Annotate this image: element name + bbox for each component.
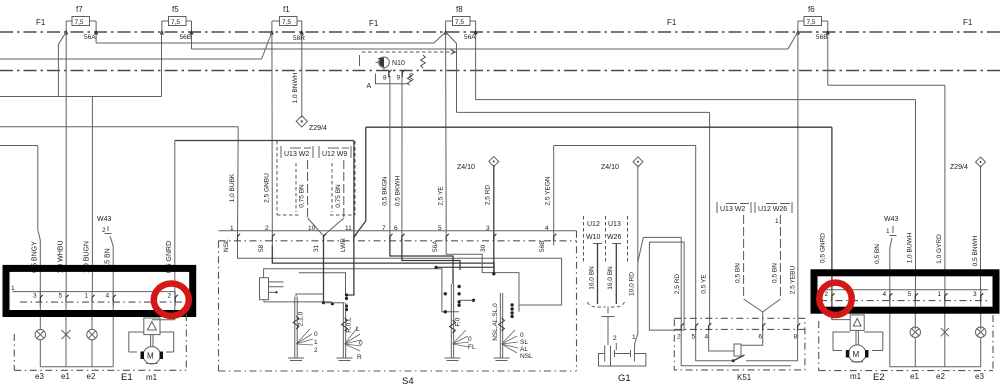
svg-text:8: 8 — [794, 334, 798, 341]
svg-text:58R: 58R — [293, 35, 305, 42]
wire f7 diagonal branch — [0, 32, 162, 97]
svg-text:R,0,L: R,0,L — [346, 317, 353, 333]
N10 pin 9 — [397, 70, 414, 82]
svg-text:0,5 BN: 0,5 BN — [772, 263, 779, 283]
left highlight block wires through — [40, 292, 175, 367]
battery G1 — [599, 334, 646, 384]
svg-text:FL: FL — [468, 344, 476, 351]
svg-text:1: 1 — [938, 291, 942, 298]
S4 pin 4 56B — [539, 225, 556, 252]
wire f8 tick diagonal branch to K51 0,5 YE — [446, 32, 710, 325]
box at G1 right — [649, 242, 684, 330]
K51 pin 8 — [794, 323, 801, 340]
coupler U13 W2 at K51 — [717, 202, 751, 299]
svg-text:2,5 YE: 2,5 YE — [438, 186, 445, 206]
right block pin 2 — [825, 290, 835, 305]
svg-text:Z4/10: Z4/10 — [601, 164, 619, 171]
ground bracket — [587, 302, 605, 307]
svg-text:F1: F1 — [667, 18, 677, 27]
svg-text:1: 1 — [230, 225, 234, 232]
svg-text:56B: 56B — [816, 34, 828, 41]
svg-text:SL: SL — [520, 339, 528, 346]
svg-text:U13: U13 — [608, 221, 621, 228]
svg-text:3: 3 — [973, 291, 977, 298]
svg-text:1,0 BUBK: 1,0 BUBK — [229, 173, 236, 202]
switch wiper 2 (R,0,L) — [337, 303, 364, 361]
svg-text:2,5 RD: 2,5 RD — [485, 185, 492, 206]
svg-text:7,5: 7,5 — [75, 19, 84, 26]
wire pin3 down dark — [493, 246, 495, 274]
wire left edge y145.5 to e3 column — [0, 146, 40, 292]
svg-text:7,5: 7,5 — [807, 19, 816, 26]
wire f5 feed to e2 column — [92, 32, 161, 292]
svg-text:f1: f1 — [283, 5, 290, 14]
dash-dot frame E2 — [819, 315, 993, 371]
svg-text:56B: 56B — [539, 240, 546, 252]
wire pin11 down — [347, 246, 354, 296]
wire 0,5 BNWH Z29/4 to right block pin3 — [980, 166, 982, 290]
svg-text:U13 W2: U13 W2 — [284, 151, 309, 158]
svg-text:4: 4 — [545, 225, 549, 232]
connector block inside S4 — [260, 278, 269, 300]
svg-text:0,5 YE: 0,5 YE — [701, 274, 708, 294]
wire rail y59 to f1 tick — [0, 58, 262, 60]
svg-text:30: 30 — [480, 244, 487, 252]
svg-text:0,75 BN: 0,75 BN — [335, 184, 342, 208]
S4 pin 7 — [382, 225, 393, 246]
wire lamp return rail right — [890, 366, 981, 368]
svg-text:2,5 GNBU: 2,5 GNBU — [264, 173, 271, 203]
lamp e2 — [87, 329, 98, 381]
switch wiper 1 (2,1,0) — [288, 297, 318, 361]
svg-text:e2: e2 — [87, 372, 96, 381]
svg-text:8: 8 — [383, 75, 387, 82]
svg-text:4: 4 — [883, 291, 887, 298]
wire N10 pin8 to S4 pin7 BKGN — [389, 76, 391, 236]
svg-text:2: 2 — [314, 347, 318, 354]
svg-text:0: 0 — [468, 336, 472, 343]
svg-text:7,5: 7,5 — [282, 19, 291, 26]
S4 pin 10 31 — [308, 225, 326, 252]
svg-text:R: R — [357, 354, 362, 361]
wire rail y43 f7 to f8 — [96, 42, 434, 44]
node A bracket — [367, 74, 412, 91]
svg-text:L: L — [356, 326, 360, 333]
wire rail from block top — [264, 269, 460, 312]
svg-text:2,5 YEBU: 2,5 YEBU — [790, 265, 797, 294]
K51 internals: coil and contact — [681, 334, 797, 366]
dashed frame around U13W2 U12W9 — [277, 141, 355, 215]
svg-text:e1: e1 — [910, 372, 919, 381]
right block pin 1 — [938, 290, 948, 305]
svg-text:F,0: F,0 — [455, 317, 462, 326]
control unit N10 — [360, 50, 456, 71]
svg-text:10: 10 — [308, 225, 316, 232]
S4 internal wiring — [238, 246, 562, 319]
svg-text:2: 2 — [677, 334, 681, 341]
svg-text:f6: f6 — [808, 5, 815, 14]
svg-text:e3: e3 — [975, 372, 984, 381]
connector Z29/4 right — [950, 157, 985, 171]
ground W43 right — [884, 216, 899, 290]
K51 pin 4 — [705, 323, 712, 340]
svg-text:m1: m1 — [850, 372, 862, 381]
svg-text:9: 9 — [397, 75, 401, 82]
wire rail y140.5 GNRD to S4 pin11 — [175, 141, 354, 292]
svg-text:AL: AL — [520, 346, 528, 353]
svg-text:16,0 BN: 16,0 BN — [607, 266, 614, 290]
svg-text:2,1,0: 2,1,0 — [298, 311, 305, 326]
coupler U12 W9 — [319, 146, 351, 218]
coupler U12 U13 W10 W26 ground assembly — [584, 216, 628, 345]
left block pin 4 — [106, 292, 116, 306]
svg-text:m1: m1 — [146, 373, 158, 382]
svg-text:0: 0 — [359, 340, 363, 347]
left block pin 2 — [168, 292, 178, 306]
ground W43 left — [97, 216, 113, 292]
lamp e1 right — [910, 327, 921, 381]
svg-text:NSL,AL,SL,0: NSL,AL,SL,0 — [492, 303, 499, 341]
wire N10 pin9 to S4 pin6 BKWH — [401, 76, 403, 236]
svg-text:16,0 BN: 16,0 BN — [589, 266, 596, 290]
svg-text:5: 5 — [438, 225, 442, 232]
lamp e3 — [35, 329, 46, 381]
svg-text:F1: F1 — [963, 18, 973, 27]
bus 2 — [0, 70, 1000, 72]
relay K51 box — [674, 318, 805, 382]
svg-text:0: 0 — [314, 331, 318, 338]
K51 pin 5 — [692, 323, 699, 340]
wire f1 feed down to S4 pin2 — [271, 32, 273, 236]
left block pin 3 — [33, 292, 43, 306]
switch unit S4 box — [219, 231, 577, 387]
wire rail from pin1 — [238, 246, 562, 306]
svg-text:2: 2 — [613, 335, 617, 342]
svg-text:A: A — [367, 83, 372, 90]
svg-text:F1: F1 — [369, 19, 379, 28]
svg-text:U12 W26: U12 W26 — [758, 206, 787, 213]
svg-text:10,0 RD: 10,0 RD — [629, 272, 636, 296]
svg-text:f8: f8 — [456, 5, 463, 14]
svg-text:5: 5 — [59, 293, 63, 300]
right block jumper bar — [820, 290, 988, 301]
svg-text:W26: W26 — [607, 234, 622, 241]
fuse f8 — [444, 5, 478, 100]
fuse f6 — [796, 5, 830, 85]
svg-text:6: 6 — [394, 225, 398, 232]
svg-text:2: 2 — [168, 293, 172, 300]
connector Z4/10 right — [601, 157, 643, 171]
svg-text:0: 0 — [520, 332, 524, 339]
wire f6 left feed down to K51 pin 8 — [797, 32, 799, 325]
svg-text:6: 6 — [759, 334, 763, 341]
svg-text:e1: e1 — [61, 372, 70, 381]
right highlight block wires through — [832, 290, 981, 367]
wire 2,5 RD branch to K51 pin2 — [638, 237, 681, 325]
switch wiper 3 (F,0) — [445, 284, 476, 361]
svg-text:G1: G1 — [618, 373, 631, 384]
wire rail from pin2 — [272, 246, 494, 274]
S4 pin 2 58 — [258, 225, 275, 252]
K51 pin 6 — [759, 323, 766, 340]
wire lamp return rail left — [40, 366, 112, 368]
wire pin7 pin6 down — [390, 246, 453, 285]
svg-text:0,5 BNWH: 0,5 BNWH — [972, 235, 979, 266]
wire diagonal to f8 tick — [434, 32, 446, 43]
wire f7 feed down to e1 column — [65, 32, 67, 292]
wire rail y127.2 pin11 to right block pin2 — [354, 127, 832, 290]
svg-text:N10: N10 — [392, 60, 405, 67]
svg-text:0,5 GNRD: 0,5 GNRD — [820, 233, 827, 263]
wire f8 right lead to right block pin5 BUWH — [476, 100, 916, 290]
svg-text:e2: e2 — [936, 372, 945, 381]
coupler U12 W26 at K51 — [755, 202, 792, 299]
motor m1 left — [121, 318, 175, 383]
wire 10,0 RD Z4/10 to battery G1 — [635, 165, 638, 343]
svg-text:2,5 RD: 2,5 RD — [674, 274, 681, 295]
svg-text:1: 1 — [11, 285, 15, 292]
svg-text:E2: E2 — [873, 372, 885, 383]
svg-text:5: 5 — [692, 334, 696, 341]
svg-text:NSL: NSL — [520, 353, 533, 360]
lamp e1 cross — [61, 330, 71, 381]
fuse f7 — [64, 5, 98, 43]
right block pin 4 — [883, 290, 893, 305]
svg-text:0,5 BKGN: 0,5 BKGN — [382, 176, 389, 206]
right block pin 3 — [973, 290, 983, 305]
svg-text:M: M — [853, 350, 860, 359]
black highlight rectangle left — [6, 268, 193, 313]
left block pin 1 — [85, 292, 95, 306]
coupler U13 W2 left — [281, 146, 313, 218]
svg-text:7,5: 7,5 — [455, 19, 464, 26]
svg-text:3: 3 — [486, 225, 490, 232]
lamp e3 right — [975, 327, 986, 381]
svg-text:56A: 56A — [464, 34, 476, 41]
svg-text:LWR: LWR — [340, 238, 347, 252]
switch wiper 4 (NSL,AL,SL,0) — [492, 293, 533, 361]
wire rail y126.7 left edge to S4 pin1 — [0, 127, 238, 236]
svg-text:M: M — [147, 352, 154, 361]
FL switch contact dots — [457, 285, 460, 288]
wire V merge to K51 pin6 — [744, 299, 781, 325]
svg-text:1,0 BNWH: 1,0 BNWH — [292, 72, 299, 103]
wire diagonal to f6 tick — [788, 32, 798, 49]
svg-text:2,5 YEGN: 2,5 YEGN — [545, 176, 552, 205]
black highlight rectangle right — [814, 273, 996, 310]
svg-text:K51: K51 — [737, 373, 752, 382]
svg-text:Z4/10: Z4/10 — [457, 164, 475, 171]
svg-text:W43: W43 — [884, 216, 899, 223]
svg-text:11: 11 — [345, 225, 352, 232]
svg-text:2: 2 — [102, 227, 106, 234]
svg-text:f7: f7 — [76, 5, 83, 14]
svg-text:e3: e3 — [35, 372, 44, 381]
wire S4 pin4 YEGN to K51 pin5 — [554, 146, 696, 326]
svg-text:Z29/4: Z29/4 — [309, 125, 327, 132]
wire rail y273 — [299, 273, 346, 294]
svg-text:56A: 56A — [432, 240, 439, 252]
connector Z29/4 left — [292, 72, 327, 132]
svg-text:56A: 56A — [84, 34, 96, 41]
wire f8 tick to S4 pin5 — [445, 32, 448, 236]
svg-text:0,5 BN: 0,5 BN — [735, 263, 742, 283]
lamp e2 right cross — [936, 328, 949, 381]
motor m1 right — [832, 315, 885, 383]
svg-text:0,75 BN: 0,75 BN — [299, 184, 306, 208]
svg-text:2: 2 — [825, 291, 829, 298]
red circle right — [819, 283, 851, 315]
S4 pin 6 — [394, 225, 405, 246]
K51 pin 2 — [677, 323, 684, 340]
svg-text:31: 31 — [313, 244, 320, 252]
wire pin10 down with junction — [323, 246, 325, 303]
svg-text:0,5 BN: 0,5 BN — [874, 244, 881, 264]
left block pin 5 — [59, 292, 69, 306]
svg-text:4: 4 — [106, 293, 110, 300]
bus F1 top — [0, 18, 1000, 32]
fuse f1 — [270, 5, 305, 118]
svg-text:U12: U12 — [587, 221, 600, 228]
wire rail y49 f5 to f6 — [192, 48, 788, 50]
svg-text:W10: W10 — [586, 234, 601, 241]
svg-text:5: 5 — [908, 291, 912, 298]
svg-text:1: 1 — [632, 334, 636, 341]
svg-text:56B: 56B — [180, 34, 192, 41]
svg-text:W43: W43 — [97, 216, 112, 223]
svg-text:58: 58 — [258, 244, 265, 252]
svg-text:Z29/4: Z29/4 — [950, 164, 968, 171]
svg-text:1: 1 — [775, 218, 779, 225]
svg-text:3: 3 — [33, 293, 37, 300]
svg-text:U12 W9: U12 W9 — [322, 151, 347, 158]
S4 pin 5 56A — [432, 225, 449, 252]
svg-text:1: 1 — [314, 339, 318, 346]
S4 pin 11 LWR — [340, 225, 357, 252]
svg-text:1,0 BUWH: 1,0 BUWH — [907, 232, 914, 263]
svg-text:7,5: 7,5 — [171, 19, 180, 26]
right block pin 5 — [908, 290, 918, 305]
S4 pin 3 30 — [480, 225, 496, 252]
N10 pin 8 — [383, 70, 392, 82]
svg-text:1: 1 — [886, 228, 890, 235]
dash-dot frame E1 — [14, 314, 186, 370]
fuse f5 — [160, 5, 194, 49]
svg-text:f5: f5 — [172, 5, 179, 14]
svg-text:2: 2 — [265, 225, 269, 232]
svg-text:U13 W2: U13 W2 — [720, 206, 745, 213]
wire V merge to S4 pin10 — [308, 218, 344, 236]
red circle left — [154, 284, 189, 316]
S4 pin 1 NSL — [223, 225, 240, 252]
wire Z4/10 to S4 pin3 2,5 RD — [493, 165, 495, 236]
svg-text:4: 4 — [705, 334, 709, 341]
svg-text:F1: F1 — [36, 18, 46, 27]
svg-text:7: 7 — [382, 225, 386, 232]
svg-text:1,0 GYRD: 1,0 GYRD — [936, 234, 943, 264]
svg-text:1: 1 — [85, 293, 89, 300]
svg-text:S4: S4 — [402, 376, 414, 387]
connector Z4/10 left — [457, 157, 499, 171]
left block jumper bar — [11, 285, 183, 302]
wire loop pin5 area — [446, 246, 519, 312]
wire f6 right lead to right block pin1 GYRD — [828, 85, 945, 289]
NSL switch contact dots — [510, 303, 513, 306]
svg-text:E1: E1 — [121, 372, 133, 383]
svg-text:0,5 BKWH: 0,5 BKWH — [395, 176, 402, 207]
